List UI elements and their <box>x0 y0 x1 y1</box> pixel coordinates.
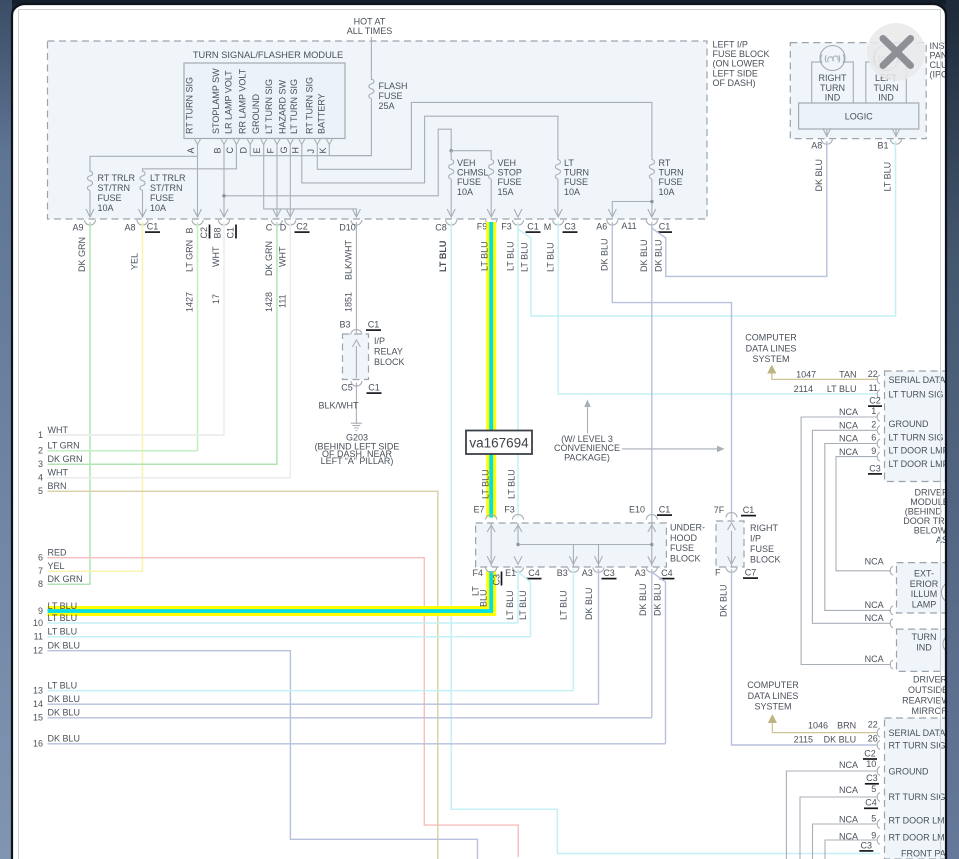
svg-text:14: 14 <box>33 699 43 709</box>
svg-text:RT: RT <box>659 158 671 168</box>
svg-text:A8: A8 <box>124 223 135 233</box>
label LT BLU below B3 <box>559 590 569 620</box>
svg-text:FLASH: FLASH <box>379 81 408 91</box>
svg-text:NCA: NCA <box>865 557 884 567</box>
svg-text:HAZARD SW: HAZARD SW <box>278 79 288 134</box>
svg-text:I/P: I/P <box>750 534 761 544</box>
svg-text:BELOW: BELOW <box>914 526 947 536</box>
wire DK BLU from A6 to right I/P fuse block 7F <box>612 222 731 520</box>
svg-text:LT BLU: LT BLU <box>506 241 516 271</box>
svg-text:HOT AT: HOT AT <box>354 17 386 27</box>
NCA pins (GROUND / LT TURN SIG / LT DOOR LMP) <box>839 406 959 469</box>
row 9 label LT BLU <box>38 606 43 616</box>
wire pin F to connector C <box>276 145 278 217</box>
row 16 label DK BLU <box>33 734 80 749</box>
wire WHT 111 from D to row 4 <box>48 222 291 478</box>
svg-text:5: 5 <box>871 814 876 824</box>
svg-text:FUSE: FUSE <box>98 193 122 203</box>
ground G203 <box>315 421 400 466</box>
svg-text:DK BLU: DK BLU <box>824 734 857 744</box>
svg-text:LT BLU: LT BLU <box>48 601 78 611</box>
svg-text:LT GRN: LT GRN <box>185 240 195 272</box>
front pass label <box>901 848 958 858</box>
svg-text:C1: C1 <box>226 227 236 239</box>
svg-text:NCA: NCA <box>839 815 858 825</box>
fuse LT TURN 10A <box>555 158 589 197</box>
relay block pins <box>341 330 362 393</box>
svg-text:TURN: TURN <box>659 168 684 178</box>
svg-text:16: 16 <box>33 739 43 749</box>
label LT BLU at M <box>546 242 556 272</box>
svg-text:DK BLU: DK BLU <box>639 239 649 272</box>
close button <box>867 23 925 81</box>
labels BLK/WHT 1851 <box>344 239 354 312</box>
wire pin J to RT TURN fuse <box>317 102 652 169</box>
svg-text:SYSTEM: SYSTEM <box>754 702 791 712</box>
driver door module (dashed, clipped right) <box>885 371 959 482</box>
svg-text:LT BLU: LT BLU <box>883 162 893 192</box>
NCA riser wires lower module <box>786 771 877 859</box>
wire pin D tap <box>250 145 371 156</box>
svg-text:LT TURN SIG: LT TURN SIG <box>289 79 299 134</box>
svg-text:C8: C8 <box>435 223 447 233</box>
svg-text:C1: C1 <box>368 320 380 330</box>
svg-text:TURN SIGNAL/FLASHER MODULE: TURN SIGNAL/FLASHER MODULE <box>193 50 343 60</box>
svg-text:10A: 10A <box>457 187 473 197</box>
right I/P exit F <box>715 556 737 577</box>
svg-text:RR LAMP VOLT: RR LAMP VOLT <box>237 68 247 134</box>
svg-text:10A: 10A <box>564 187 580 197</box>
svg-text:FUSE: FUSE <box>457 177 481 187</box>
connector label C3 rotated at F4 <box>492 572 502 586</box>
svg-text:B3: B3 <box>557 568 568 578</box>
instrument panel cluster IPC (dashed) <box>790 43 926 139</box>
svg-text:ST/TRN: ST/TRN <box>150 183 183 193</box>
svg-text:NCA: NCA <box>865 654 884 664</box>
svg-text:DK GRN: DK GRN <box>48 574 83 584</box>
svg-text:DK BLU: DK BLU <box>814 159 824 192</box>
driver outside rearview mirror text <box>902 675 950 717</box>
underhood entries E7 F3 E10 <box>473 505 657 533</box>
svg-text:8: 8 <box>38 579 43 589</box>
svg-text:COMPUTER: COMPUTER <box>745 333 797 343</box>
svg-text:LT BLU: LT BLU <box>48 627 78 637</box>
wire row 4 WHT <box>48 477 291 479</box>
wire YEL from A8 to row 7 <box>48 222 143 571</box>
module pin B (STOPLAMP SW) <box>211 68 227 154</box>
svg-text:(ON LOWER: (ON LOWER <box>713 59 766 69</box>
wire pin E to connector D10 <box>264 145 357 217</box>
row 7 label YEL <box>38 561 65 576</box>
wire pin G to connector D <box>289 145 291 217</box>
row 5 label BRN <box>38 481 67 496</box>
svg-text:IND: IND <box>825 93 841 103</box>
svg-text:YEL: YEL <box>130 253 140 270</box>
wire row 14 DK BLU <box>48 703 599 705</box>
svg-text:SYSTEM: SYSTEM <box>752 354 789 364</box>
svg-text:C3: C3 <box>861 840 873 850</box>
row 11 label LT BLU <box>34 627 78 642</box>
svg-text:va167694: va167694 <box>469 436 529 451</box>
svg-text:17: 17 <box>211 294 221 304</box>
svg-text:DK BLU: DK BLU <box>653 583 663 616</box>
svg-text:B: B <box>185 227 195 233</box>
turn signal/flasher module U1 <box>184 50 345 139</box>
svg-text:SERIAL DATA: SERIAL DATA <box>889 375 946 385</box>
wire row 11 LT BLU <box>48 636 531 638</box>
module pin E (GROUND) <box>251 94 267 154</box>
turn ind box (dashed, clipped) <box>897 629 959 671</box>
svg-text:TAN: TAN <box>839 369 856 379</box>
connector labels C D C2 D10 C8 F9 F3 C1 M C3 A6 A11 C1 <box>266 223 287 233</box>
svg-text:15: 15 <box>33 713 43 723</box>
svg-text:DK BLU: DK BLU <box>600 238 610 271</box>
wire DK BLU from F to RT TURN SIG pin 26 <box>732 569 878 745</box>
label LT BLU branch <box>520 242 530 272</box>
label LT BLU at C8 <box>438 241 448 272</box>
svg-text:RIGHT: RIGHT <box>819 73 848 83</box>
svg-text:6: 6 <box>871 433 876 443</box>
svg-text:IND: IND <box>916 643 932 653</box>
svg-text:DK BLU: DK BLU <box>584 587 594 620</box>
row 12 label DK BLU <box>33 641 80 656</box>
wire row 6 RED (exits bottom) <box>48 558 519 857</box>
wire LT GRN 1427 from B to row 2 <box>48 222 198 451</box>
svg-text:DK BLU: DK BLU <box>654 239 664 272</box>
wire row 10 LT BLU <box>48 622 519 624</box>
svg-text:LR LAMP VOLT: LR LAMP VOLT <box>224 70 234 134</box>
wire LT BLU from F3 down to underhood fuse block <box>517 222 519 518</box>
labels LT BLU on highlighted wire <box>480 241 491 499</box>
svg-text:NCA: NCA <box>839 407 858 417</box>
wire TAN 1047 to serial data pin 22 <box>772 369 878 380</box>
label DK BLU at A11 <box>639 239 649 272</box>
node: stop fuse feed <box>451 151 491 160</box>
NCA pins lower module <box>839 759 929 777</box>
label LT BLU at F4 (two columns) <box>471 586 489 607</box>
svg-text:ALL TIMES: ALL TIMES <box>347 26 393 36</box>
svg-text:TURN: TURN <box>912 632 937 642</box>
connector labels B / C2 / B8 / C1 (rotated) <box>185 225 237 239</box>
svg-text:C3: C3 <box>603 568 615 578</box>
row 9 10 11 labels redrawn over highlight <box>48 601 78 623</box>
label DK GRN / A9 <box>77 237 87 272</box>
right I/P fuse block label <box>750 523 781 565</box>
wire row 15 DK BLU <box>48 717 652 719</box>
svg-text:DK BLU: DK BLU <box>48 694 81 704</box>
wire: flash fuse to pin K <box>329 99 371 156</box>
svg-text:BLOCK: BLOCK <box>750 555 781 565</box>
svg-text:26: 26 <box>868 733 878 743</box>
wire row 2 LT GRN <box>48 450 198 452</box>
fuse VEH STOP 15A <box>489 158 522 197</box>
labels LT BLU below E1 <box>505 590 528 620</box>
svg-text:I/P: I/P <box>374 336 385 346</box>
svg-text:LT TRLR: LT TRLR <box>150 173 186 183</box>
svg-text:LT BLU: LT BLU <box>438 241 448 272</box>
svg-text:REARVIEW: REARVIEW <box>902 696 950 706</box>
connector labels A9 A8 C1 <box>72 223 135 233</box>
svg-text:LEFT “A” PILLAR): LEFT “A” PILLAR) <box>321 456 394 466</box>
svg-text:BLK/WHT: BLK/WHT <box>344 239 354 280</box>
connector symbols on fuse block edge <box>85 209 658 225</box>
module pin C (LR LAMP VOLT) <box>224 70 240 154</box>
svg-text:4: 4 <box>38 473 43 483</box>
svg-text:LT BLU: LT BLU <box>507 469 517 499</box>
svg-text:FUSE: FUSE <box>670 543 694 553</box>
fuse FLASH FUSE 25A <box>369 79 408 111</box>
labels DK GRN 1428 <box>264 241 274 312</box>
svg-text:6: 6 <box>38 553 43 563</box>
svg-text:LT BLU: LT BLU <box>518 590 528 620</box>
left I/P fuse block label <box>713 40 770 88</box>
wire row 8 DK GRN <box>48 583 91 585</box>
svg-text:LT BLU: LT BLU <box>505 590 515 620</box>
svg-text:A: A <box>186 147 196 153</box>
svg-text:DK BLU: DK BLU <box>48 641 81 651</box>
svg-text:LT BLU: LT BLU <box>480 241 490 271</box>
wire DK GRN from A9 to row 8 <box>48 222 91 584</box>
svg-text:111: 111 <box>278 294 288 308</box>
svg-text:A6: A6 <box>596 222 607 232</box>
svg-text:WHT: WHT <box>48 468 69 478</box>
svg-text:VEH: VEH <box>457 158 476 168</box>
svg-text:A9: A9 <box>72 223 83 233</box>
labels LT BLU on F3 wire <box>506 241 517 499</box>
svg-text:C: C <box>266 223 273 233</box>
svg-text:10: 10 <box>866 759 876 769</box>
svg-text:OF DASH): OF DASH) <box>713 78 756 88</box>
wire LT TURN fuse to connector M <box>557 179 559 216</box>
wire BRN 1046 to serial data pin 22 <box>772 719 877 732</box>
lamp LEFT TURN IND <box>866 46 907 104</box>
wire DK BLU A3 split to row 16 <box>652 572 666 744</box>
svg-text:PACKAGE): PACKAGE) <box>564 453 610 463</box>
pin texts serial data block <box>889 375 959 400</box>
svg-text:C2: C2 <box>864 748 876 758</box>
fuse LT TRLR ST/TRN 10A <box>140 171 186 213</box>
svg-text:ILLUM: ILLUM <box>911 589 938 599</box>
wire LT TRLR fuse to connector A8 <box>142 191 144 217</box>
svg-text:RELAY: RELAY <box>374 347 403 357</box>
I/P relay block (dashed) <box>339 320 368 380</box>
svg-text:B8: B8 <box>213 227 223 238</box>
svg-text:RED: RED <box>48 548 68 558</box>
svg-text:F4: F4 <box>473 568 484 578</box>
wire: HOT AT ALL TIMES feed <box>347 17 393 81</box>
svg-text:C1: C1 <box>659 222 671 232</box>
svg-text:5: 5 <box>38 486 43 496</box>
svg-text:LT GRN: LT GRN <box>48 441 80 451</box>
svg-text:C1: C1 <box>659 505 671 515</box>
svg-text:CONVENIENCE: CONVENIENCE <box>554 443 620 453</box>
svg-text:C2: C2 <box>199 227 209 239</box>
wire LT BLU branch from F3 to IPC B1 <box>518 141 896 316</box>
svg-text:YEL: YEL <box>48 561 65 571</box>
front pass module pins <box>877 728 880 844</box>
svg-text:7: 7 <box>38 566 43 576</box>
wire VEH CHMSL fuse to connector C8 <box>450 179 452 216</box>
svg-text:1851: 1851 <box>344 292 354 312</box>
svg-text:D: D <box>239 147 249 154</box>
svg-text:DK GRN: DK GRN <box>48 454 83 464</box>
wire row 16 DK BLU <box>48 743 666 745</box>
wire BLK/WHT 1851 from D10 to I/P relay block <box>355 222 357 333</box>
svg-text:LAMP: LAMP <box>912 599 937 609</box>
row 15 label DK BLU <box>33 708 80 723</box>
svg-text:E: E <box>252 147 262 153</box>
svg-text:DK GRN: DK GRN <box>264 241 274 276</box>
svg-text:DK BLU: DK BLU <box>638 583 648 616</box>
labels WHT 111 <box>278 246 288 308</box>
svg-text:TURN: TURN <box>820 83 845 93</box>
svg-text:HOOD: HOOD <box>670 533 698 543</box>
svg-text:STOPLAMP SW: STOPLAMP SW <box>211 68 221 134</box>
svg-text:C1: C1 <box>527 222 539 232</box>
wire BLK/WHT to ground <box>319 383 360 422</box>
svg-text:DATA LINES: DATA LINES <box>746 344 797 354</box>
svg-text:9: 9 <box>38 606 43 616</box>
svg-text:C3: C3 <box>866 773 878 783</box>
svg-text:2114: 2114 <box>794 384 813 394</box>
wire VEH STOP fuse to connector F9 <box>490 179 492 216</box>
wire LT BLU from C8 (long run to bottom right) <box>451 222 880 854</box>
svg-text:1427: 1427 <box>185 292 195 312</box>
svg-text:ERIOR: ERIOR <box>910 579 939 589</box>
labels 2115 DK BLU 26 <box>794 733 878 744</box>
svg-text:1: 1 <box>871 406 876 416</box>
svg-text:FUSE BLOCK: FUSE BLOCK <box>713 49 770 59</box>
svg-text:LT BLU: LT BLU <box>48 613 78 623</box>
svg-text:1428: 1428 <box>264 292 274 312</box>
fuse RT TURN 10A <box>649 158 683 197</box>
label DK BLU branch <box>654 239 664 272</box>
svg-text:GROUND: GROUND <box>889 767 929 777</box>
label LT BLU at IPC B1 <box>883 162 893 192</box>
svg-text:LEFT SIDE: LEFT SIDE <box>713 68 758 78</box>
svg-text:NCA: NCA <box>839 785 858 795</box>
right I/P entry 7F <box>714 505 737 530</box>
row 2 label LT GRN <box>38 441 80 456</box>
svg-text:RT TURN SIG: RT TURN SIG <box>305 77 315 134</box>
row 4 label WHT <box>38 468 69 483</box>
svg-text:NCA: NCA <box>839 421 858 431</box>
svg-text:C4: C4 <box>661 568 673 578</box>
svg-text:11: 11 <box>868 383 877 393</box>
svg-text:C3: C3 <box>564 222 576 232</box>
module pin H (LT TURN SIG) <box>289 79 305 154</box>
svg-text:FUSE: FUSE <box>750 544 774 554</box>
wire row 3 DK GRN <box>48 463 277 465</box>
labels 2114 LT BLU 11 <box>794 383 878 394</box>
wire LT BLU from M to serial data pin 11 <box>558 222 877 394</box>
svg-text:C4: C4 <box>528 568 540 578</box>
svg-text:EXT-: EXT- <box>914 568 934 578</box>
svg-text:NCA: NCA <box>865 600 884 610</box>
svg-text:15A: 15A <box>498 187 514 197</box>
right I/P fuse block (dashed) <box>716 521 744 567</box>
svg-text:10: 10 <box>33 618 43 628</box>
svg-text:LT BLU: LT BLU <box>559 590 569 620</box>
svg-text:A8: A8 <box>811 141 822 151</box>
svg-text:OUTSIDE: OUTSIDE <box>908 685 948 695</box>
wire NCA 1 to turn ind lamp <box>801 417 891 665</box>
front passenger door module (dashed, clipped) <box>885 718 959 859</box>
svg-text:F3: F3 <box>501 222 512 232</box>
svg-text:D10: D10 <box>339 223 356 233</box>
row 14 label DK BLU <box>33 694 80 709</box>
row 8 label DK GRN <box>38 574 83 589</box>
svg-text:RT TURN SIG: RT TURN SIG <box>889 740 946 750</box>
underhood exits F4 E1 B3 A3 A3 <box>473 556 658 578</box>
right I/P internal wire <box>731 531 733 567</box>
wire pin C to LT TRLR fuse <box>143 145 237 173</box>
svg-text:ST/TRN: ST/TRN <box>98 183 131 193</box>
svg-text:FUSE: FUSE <box>564 177 588 187</box>
svg-text:C3: C3 <box>869 463 881 473</box>
svg-text:12: 12 <box>33 646 43 656</box>
label DK BLU below F <box>719 584 729 617</box>
svg-text:DATA LINES: DATA LINES <box>748 691 799 701</box>
svg-text:UNDER-: UNDER- <box>670 523 705 533</box>
labels LT GRN 1427 <box>185 240 195 312</box>
svg-text:22: 22 <box>868 719 878 729</box>
wire pin A to connector B <box>197 145 199 217</box>
svg-text:A11: A11 <box>621 221 636 231</box>
svg-text:DRIVER: DRIVER <box>914 488 949 498</box>
svg-text:B: B <box>213 147 223 153</box>
svg-text:NCA: NCA <box>865 613 884 623</box>
svg-text:A3: A3 <box>582 568 593 578</box>
svg-text:C2: C2 <box>869 396 881 406</box>
turn ind pin NCA <box>865 654 893 669</box>
svg-text:A3: A3 <box>635 568 646 578</box>
svg-text:1046: 1046 <box>808 720 828 730</box>
driver door module text <box>903 488 959 546</box>
exterior illum lamp box (dashed, clipped) <box>897 563 959 613</box>
svg-text:BRN: BRN <box>837 720 856 730</box>
svg-text:FUSE: FUSE <box>498 177 522 187</box>
module pin G (HAZARD SW) <box>278 79 294 153</box>
svg-text:BLK/WHT: BLK/WHT <box>319 401 360 411</box>
svg-text:9: 9 <box>871 830 876 840</box>
svg-text:NCA: NCA <box>839 760 858 770</box>
wire row 7 YEL <box>48 570 143 572</box>
svg-text:SERIAL DATA: SERIAL DATA <box>889 728 946 738</box>
svg-text:MIRROR: MIRROR <box>912 706 949 716</box>
svg-text:J: J <box>306 149 316 154</box>
wire DK BLU A3 to row 15 <box>651 569 653 718</box>
svg-text:BRN: BRN <box>48 481 67 491</box>
svg-text:C3: C3 <box>492 574 502 586</box>
svg-text:C7: C7 <box>745 568 757 578</box>
svg-text:TURN: TURN <box>564 168 589 178</box>
svg-text:BLOCK: BLOCK <box>374 357 405 367</box>
driver door module pins <box>877 375 880 461</box>
svg-text:LOGIC: LOGIC <box>845 112 874 122</box>
underhood fuse block (dashed) <box>476 523 667 567</box>
svg-text:C4: C4 <box>865 798 877 808</box>
wire DK BLU branch from A11 to IPC A8 <box>652 141 827 276</box>
svg-text:LT BLU: LT BLU <box>481 469 491 499</box>
svg-text:C1: C1 <box>368 383 380 393</box>
svg-text:C1: C1 <box>743 505 755 515</box>
svg-text:7F: 7F <box>714 505 725 515</box>
svg-text:2: 2 <box>871 420 876 430</box>
svg-text:COMPUTER: COMPUTER <box>747 680 799 690</box>
lamp RIGHT TURN IND <box>812 46 854 104</box>
svg-text:BLU: BLU <box>479 589 489 607</box>
